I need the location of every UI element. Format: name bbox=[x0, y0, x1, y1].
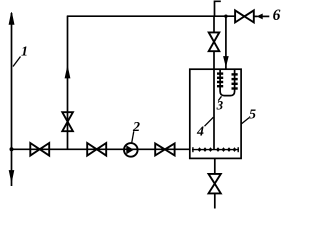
svg-text:5: 5 bbox=[249, 108, 256, 123]
heating coil U-tube bbox=[220, 69, 235, 96]
node: junction dot on top pipe bbox=[224, 15, 227, 18]
wire: vent stub at top bbox=[215, 1, 221, 16]
wire: drain pipe to bottom bbox=[214, 193, 216, 208]
valve V2 (gate valve on main line) bbox=[87, 143, 106, 156]
tank T (rectangle) bbox=[190, 69, 241, 158]
wire: riser pipe x=67.5 bbox=[67, 16, 69, 149]
valve V3 (gate valve before tank) bbox=[155, 143, 174, 155]
wire: left vertical pipe bbox=[11, 13, 13, 186]
svg-text:1: 1 bbox=[21, 45, 28, 60]
svg-text:3: 3 bbox=[216, 98, 224, 113]
wire: main horizontal pipe bbox=[12, 148, 191, 150]
svg-text:6: 6 bbox=[273, 7, 281, 24]
svg-text:2: 2 bbox=[132, 120, 140, 135]
leader for label 4 bbox=[205, 117, 214, 126]
valve V6 (inlet valve top right) bbox=[235, 10, 254, 22]
arrow up on riser bbox=[65, 67, 70, 78]
valve V4 (vertical gate valve on riser) bbox=[62, 112, 73, 131]
leader for label 2 bbox=[132, 131, 134, 143]
wire: dip tube from valve V5 into tank down to sparger bbox=[213, 51, 215, 149]
valve V5 (vertical valve on steam line) bbox=[209, 32, 220, 51]
arrow down into tank on coil line bbox=[224, 57, 229, 66]
arrow up at top of left pipe bbox=[9, 12, 14, 24]
node: junction dot left pipe / main line bbox=[10, 147, 14, 151]
leader for label 3 bbox=[218, 96, 221, 100]
svg-text:4: 4 bbox=[196, 125, 204, 140]
inlet arrow pointing left into V6 bbox=[254, 15, 258, 17]
arrow down at bottom of left pipe bbox=[9, 171, 14, 182]
wire: steam line down from vent crossing bbox=[213, 16, 215, 32]
valve V7 (vertical drain valve) bbox=[209, 174, 221, 194]
pump P (circle with filled triangle) bbox=[124, 143, 138, 157]
valve V1 (gate valve on main line) bbox=[30, 143, 49, 156]
wire: line from junction dot down to tank (steam to coil) bbox=[225, 16, 227, 69]
coil fins (beads) bbox=[217, 72, 238, 89]
leader for label 1 bbox=[13, 57, 21, 67]
leader for label 5 bbox=[241, 118, 249, 124]
wire: inlet line bbox=[262, 15, 269, 17]
sparger (perforated pipe) in tank bottom bbox=[192, 149, 239, 151]
wire: drain pipe below tank bbox=[214, 158, 216, 174]
wire: top horizontal pipe bbox=[67, 15, 235, 17]
